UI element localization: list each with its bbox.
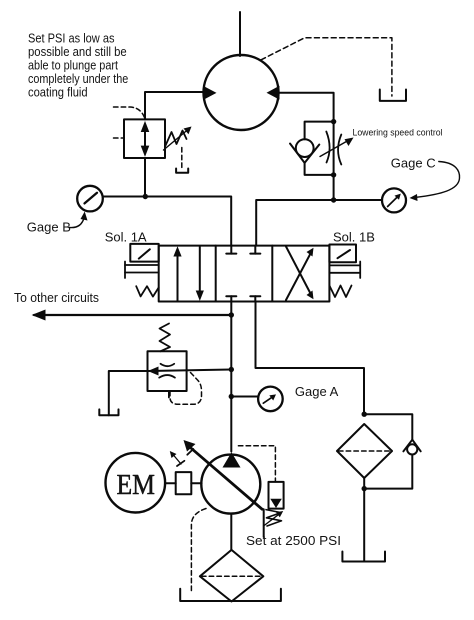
reducing valve pilot dashed curve (top-left) [114,107,145,118]
flow control FC1 adjust arrow [320,140,349,157]
wire: motor right supply [280,93,334,200]
pump variable arrow [188,446,262,510]
wire: valve port P down to pump [230,302,232,452]
note text block [28,31,128,100]
motor drain tank [380,90,406,101]
node top of branch [331,119,336,124]
svg-text:Sol. 1B: Sol. 1B [333,230,375,245]
bypass check valve CV2 [407,444,417,454]
return tank [342,552,385,562]
node gage A [229,394,234,399]
svg-text:EM: EM [117,469,156,501]
compensator triangle [270,499,282,508]
motor M1 circle [204,55,279,130]
suction strainer F1 diamond [200,550,263,602]
svg-text:Gage C: Gage C [391,156,436,171]
gage A needle [263,397,272,403]
relief valve RV1 branch wire with arrow [149,370,232,372]
motor M1 shaft [239,12,241,56]
gage C circle [382,188,406,212]
valve divider left [215,246,217,302]
check valve CV1 branch wires [305,122,334,140]
to other circuits arrow [34,314,231,316]
svg-text:To other circuits: To other circuits [14,291,99,305]
gage B circle [77,186,103,212]
pump case drain dashed [191,509,206,594]
relief drain tank [99,409,118,415]
reducing valve drain tank [176,169,188,173]
motor M1 right port arrowhead [267,86,280,100]
solenoid SOL1A box [130,244,158,262]
node other circuits [229,312,234,317]
left envelope up arrow [177,254,179,301]
compensator tick bars [187,449,193,455]
node main line to gage C [331,197,336,202]
relief valve RV1 body [148,351,187,391]
gage A wire [231,396,258,398]
wire: filter to tank [363,478,365,561]
pressure reducing valve V1 body [124,119,165,158]
right return spring [329,286,351,298]
filter dashed element [339,450,391,452]
svg-text:Gage B: Gage B [27,219,71,234]
gage A circle [258,387,283,412]
right manual override [329,264,360,266]
left envelope down arrow [199,247,201,294]
compensator spring [266,510,282,526]
wire: gage B to valve port A [103,197,231,246]
reducing valve drain dashed [181,148,183,169]
reducing valve left dashed stub [114,137,124,139]
wire: gage C line to valve port B [256,200,382,246]
wire: pump suction [230,514,232,550]
filter bypass wire [364,414,412,440]
compensator small arrow [173,455,181,465]
node filter bottom [362,486,367,491]
reducing valve adjust arrow [164,130,189,151]
electric motor EM circle [106,453,166,513]
reducing valve spring [165,131,186,147]
node at reducing valve junction [143,194,148,199]
node filter top [362,412,367,417]
reducing valve internal arrow [144,128,146,150]
wire from pump arrow down [262,509,264,537]
pump outlet triangle [223,452,241,467]
coupling box [176,472,192,494]
gage C pointer hook [416,162,460,198]
coupling stub left [165,482,176,484]
svg-text:Set at 2500 PSI: Set at 2500 PSI [246,533,341,548]
center envelope blocked ports [230,246,232,254]
motor case drain dashed line [261,38,392,96]
gage B needle [85,193,98,204]
flow control FC1 arcs [326,132,329,163]
svg-text:coating fluid: coating fluid [28,85,88,100]
node relief branch [229,367,234,372]
wire: motor left supply [145,92,203,119]
wire: reducing valve to gage-B line [144,158,146,197]
wire: valve port T to filter [256,302,365,415]
motor M1 left port arrowhead [203,86,217,100]
pump compensator dashed pilot [238,446,275,482]
solenoid SOL1B box [329,245,356,263]
check valve CV1 [296,139,314,157]
relief valve spring [160,324,171,352]
gage B pointer hook [70,218,85,228]
relief valve drain wire [109,371,148,415]
main reservoir tank [180,589,281,601]
svg-text:Lowering speed control: Lowering speed control [353,128,443,139]
compensator valve box [269,482,284,509]
return filter F2 diamond [337,424,392,478]
relief pilot solid stub [168,391,170,398]
relief pilot dashed [170,373,202,405]
compensator adjust arrow [264,514,280,526]
valve DV1 body [159,246,330,302]
right envelope crossed arrows [286,254,311,301]
node bottom of branch [331,172,336,177]
svg-text:Gage A: Gage A [295,384,339,399]
strainer dashed element [202,575,262,577]
pump P1 circle [201,455,260,514]
relief valve venturi arcs [161,364,175,366]
valve divider right [271,246,273,302]
svg-text:Sol. 1A: Sol. 1A [105,230,147,245]
gage C needle [388,197,398,207]
coupling stub right [191,482,201,484]
left manual override [125,264,159,266]
left return spring [136,286,159,296]
